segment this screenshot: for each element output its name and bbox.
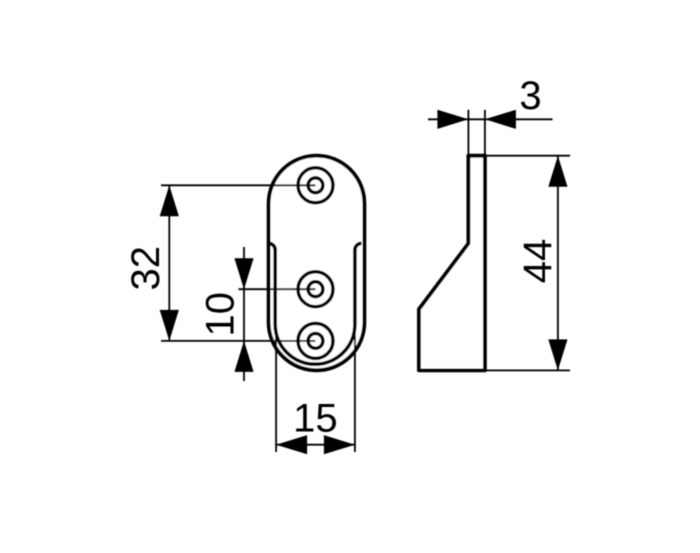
svg-text:10: 10 (199, 292, 243, 337)
svg-text:3: 3 (519, 74, 541, 118)
svg-text:15: 15 (293, 396, 338, 440)
svg-text:44: 44 (516, 239, 560, 284)
svg-text:32: 32 (124, 246, 168, 291)
